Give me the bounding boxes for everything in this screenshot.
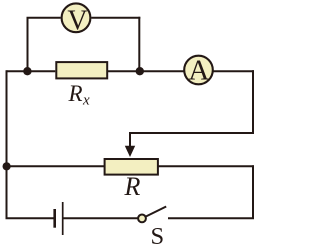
wire: wiper feed horizontal xyxy=(129,132,254,134)
wire: Rx row right segment (Rx to ammeter) xyxy=(108,70,184,72)
svg-text:V: V xyxy=(67,6,87,37)
ammeter A xyxy=(184,54,213,86)
svg-text:A: A xyxy=(188,54,209,86)
battery xyxy=(55,202,63,235)
wire: left rail vertical xyxy=(6,70,8,219)
wire: voltmeter branch right vertical xyxy=(138,17,140,71)
wire: voltmeter branch top left horizontal xyxy=(27,17,61,19)
rheostat wiper arrow head xyxy=(125,146,135,157)
wire: battery to switch xyxy=(64,217,139,219)
wire: switch to right rail xyxy=(168,217,254,219)
svg-text:x: x xyxy=(82,93,90,109)
wire: Rx row left segment (left rail to Rx) xyxy=(7,70,56,72)
switch S xyxy=(138,207,166,223)
wire: voltmeter branch top right horizontal xyxy=(91,17,140,19)
node: junction dot right (V branch / Rx row) xyxy=(136,67,144,75)
svg-text:S: S xyxy=(151,223,165,246)
svg-text:R: R xyxy=(124,172,141,201)
wire: R row left segment xyxy=(6,165,105,167)
resistor Rx xyxy=(56,62,107,78)
wire: bottom row left segment (to battery) xyxy=(6,217,54,219)
wire: R row right segment xyxy=(159,165,255,167)
wire: right rail upper vertical xyxy=(252,70,254,134)
wire: ammeter to right rail xyxy=(213,70,254,72)
node: junction dot left rail / R row xyxy=(3,162,11,170)
wire: voltmeter branch left vertical xyxy=(27,18,29,71)
svg-text:R: R xyxy=(68,81,83,106)
voltmeter V xyxy=(62,3,91,36)
rheostat R body xyxy=(105,159,158,175)
wire: right rail lower vertical xyxy=(252,165,254,219)
node: junction dot left (V branch / Rx row) xyxy=(23,67,31,75)
wire: wiper arrow stem xyxy=(129,132,131,148)
